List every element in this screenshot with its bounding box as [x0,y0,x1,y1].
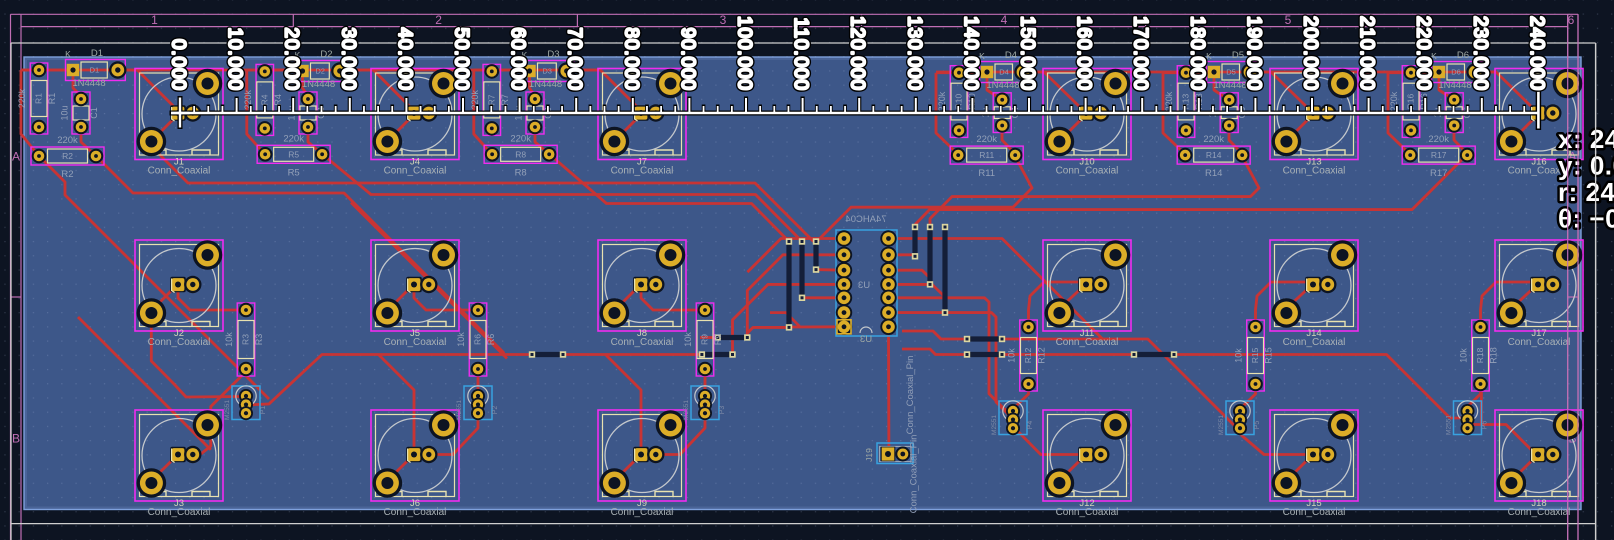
svg-text:Conn_Coaxial: Conn_Coaxial [148,337,211,348]
svg-text:Conn_Coaxial: Conn_Coaxial [384,337,447,348]
svg-text:4: 4 [1001,13,1008,27]
svg-text:K: K [65,49,71,59]
svg-text:D2: D2 [320,49,332,60]
svg-text:R9: R9 [713,334,723,346]
svg-text:40.000: 40.000 [394,27,415,91]
svg-text:A: A [12,150,20,164]
svg-text:10k: 10k [456,332,466,347]
svg-text:Conn_Coaxial: Conn_Coaxial [611,166,674,177]
svg-text:190.000: 190.000 [1243,16,1264,91]
svg-text:R18: R18 [1489,347,1499,364]
svg-text:D6: D6 [1451,68,1461,77]
svg-text:2: 2 [435,13,442,27]
svg-text:R2: R2 [62,151,73,161]
svg-text:120.000: 120.000 [847,16,868,91]
svg-text:10u: 10u [60,105,70,120]
svg-text:10k: 10k [683,332,693,347]
svg-text:3: 3 [720,13,727,27]
svg-text:50.000: 50.000 [451,27,472,91]
svg-text:1N4448: 1N4448 [72,78,105,89]
svg-text:J19: J19 [864,448,874,462]
svg-text:Conn_Coaxial: Conn_Coaxial [1508,337,1571,348]
svg-text:R12: R12 [1037,347,1047,364]
svg-text:130.000: 130.000 [903,16,924,91]
svg-text:D3: D3 [547,49,559,60]
svg-text:D4: D4 [1005,50,1017,61]
svg-text:30.000: 30.000 [337,27,358,91]
svg-text:Conn_Coaxial: Conn_Coaxial [148,166,211,177]
svg-text:210.000: 210.000 [1356,16,1377,91]
svg-text:R6: R6 [486,334,496,346]
svg-text:U3: U3 [858,280,870,291]
svg-text:R12: R12 [1023,347,1033,363]
svg-text:74AHC04: 74AHC04 [845,214,886,225]
svg-text:B: B [12,432,20,446]
svg-text:P2: P2 [492,406,499,415]
svg-text:R4: R4 [273,94,283,106]
svg-text:D4: D4 [999,68,1009,77]
svg-text:100.000: 100.000 [734,16,755,91]
svg-text:110.000: 110.000 [790,17,811,91]
svg-text:U3: U3 [860,334,872,345]
svg-text:180.000: 180.000 [1186,16,1207,91]
svg-text:220.000: 220.000 [1413,16,1434,91]
svg-text:220k: 220k [1428,134,1449,145]
svg-text:M2551: M2551 [456,400,463,420]
svg-text:1: 1 [151,13,158,27]
svg-text:R17: R17 [1430,168,1447,179]
svg-text:M2551: M2551 [991,415,998,435]
svg-text:1N4448: 1N4448 [986,80,1019,91]
svg-text:Conn_Coaxial_Pin: Conn_Coaxial_Pin [909,435,920,514]
svg-text:60.000: 60.000 [507,27,528,91]
svg-text:10k: 10k [1007,348,1017,363]
svg-text:R7: R7 [500,94,510,106]
svg-text:Conn_Coaxial: Conn_Coaxial [1508,507,1571,518]
svg-text:R6: R6 [473,334,483,345]
svg-text:θ: −0: θ: −0 [1558,203,1614,233]
svg-text:220k: 220k [976,134,997,145]
svg-text:10k: 10k [224,332,234,347]
svg-text:220k: 220k [17,88,27,108]
svg-text:M2551: M2551 [1218,415,1225,435]
svg-text:R11: R11 [978,168,995,179]
svg-text:70.000: 70.000 [564,27,585,91]
svg-text:R14: R14 [1205,168,1222,179]
svg-text:M2551: M2551 [1446,415,1453,435]
svg-text:Conn_Coaxial: Conn_Coaxial [1056,337,1119,348]
svg-text:20.000: 20.000 [281,27,302,91]
svg-text:0.000: 0.000 [168,39,189,91]
svg-text:R5: R5 [288,167,300,178]
svg-text:R3: R3 [241,334,251,345]
svg-text:Conn_Coaxial: Conn_Coaxial [611,507,674,518]
svg-text:Conn_Coaxial: Conn_Coaxial [1056,507,1119,518]
svg-text:Conn_Coaxial: Conn_Coaxial [1283,507,1346,518]
svg-text:230.000: 230.000 [1469,16,1490,91]
svg-text:R17: R17 [1431,150,1447,160]
svg-text:1N4448: 1N4448 [1438,80,1471,91]
svg-text:80.000: 80.000 [620,27,641,91]
svg-text:R4: R4 [259,94,269,105]
svg-text:R9: R9 [700,334,710,345]
svg-text:R15: R15 [1264,347,1274,364]
svg-text:140.000: 140.000 [960,16,981,91]
svg-text:Conn_Coaxial: Conn_Coaxial [384,507,447,518]
svg-text:5: 5 [1285,13,1292,27]
svg-text:D1: D1 [90,66,100,75]
svg-text:D2: D2 [315,67,325,76]
svg-text:150.000: 150.000 [1017,16,1038,91]
svg-text:R11: R11 [979,150,994,160]
svg-text:1N4448: 1N4448 [302,79,335,90]
svg-text:1N4448: 1N4448 [1213,80,1246,91]
svg-text:10.000: 10.000 [224,27,245,91]
svg-text:Conn_Coaxial: Conn_Coaxial [1056,166,1119,177]
svg-text:R3: R3 [254,334,264,346]
svg-text:R1: R1 [34,93,44,104]
svg-text:P4: P4 [1027,421,1034,430]
svg-text:M2551: M2551 [683,400,690,420]
svg-text:Conn_Coaxial: Conn_Coaxial [148,507,211,518]
svg-text:10k: 10k [1459,348,1469,363]
svg-text:10k: 10k [1234,348,1244,363]
svg-text:220k: 220k [1203,134,1224,145]
svg-text:D5: D5 [1226,68,1236,77]
svg-text:170.000: 170.000 [1130,16,1151,91]
svg-text:Conn_Coaxial_Pin: Conn_Coaxial_Pin [905,356,916,435]
svg-text:R5: R5 [288,149,299,159]
svg-text:R8: R8 [515,167,527,178]
svg-text:240.000: 240.000 [1526,16,1547,91]
svg-text:220k: 220k [57,135,78,146]
svg-text:R8: R8 [515,149,526,159]
svg-text:90.000: 90.000 [677,27,698,91]
svg-text:R2: R2 [61,169,73,180]
svg-text:R14: R14 [1206,150,1222,160]
svg-text:C1: C1 [89,107,99,119]
svg-text:D3: D3 [542,67,552,76]
svg-text:P6: P6 [1482,421,1489,430]
svg-text:220k: 220k [510,133,531,144]
svg-text:M2551: M2551 [224,400,231,420]
svg-text:y: 0.0: y: 0.0 [1558,150,1614,180]
svg-text:P1: P1 [260,406,267,415]
svg-text:D6: D6 [1457,50,1469,61]
svg-text:D1: D1 [91,48,103,59]
svg-text:R15: R15 [1250,347,1260,363]
svg-text:Conn_Coaxial: Conn_Coaxial [1283,337,1346,348]
svg-text:1N4448: 1N4448 [529,79,562,90]
svg-text:Conn_Coaxial: Conn_Coaxial [384,166,447,177]
svg-text:160.000: 160.000 [1073,16,1094,91]
svg-text:D5: D5 [1232,50,1244,61]
svg-text:P3: P3 [719,406,726,415]
svg-text:P5: P5 [1254,421,1261,430]
svg-text:R1: R1 [47,93,57,105]
svg-text:Conn_Coaxial: Conn_Coaxial [611,337,674,348]
svg-text:200.000: 200.000 [1300,16,1321,91]
svg-text:220k: 220k [283,133,304,144]
svg-text:6: 6 [1568,13,1575,27]
svg-text:R7: R7 [486,94,496,105]
svg-text:R18: R18 [1475,347,1485,363]
svg-text:Conn_Coaxial: Conn_Coaxial [1283,166,1346,177]
